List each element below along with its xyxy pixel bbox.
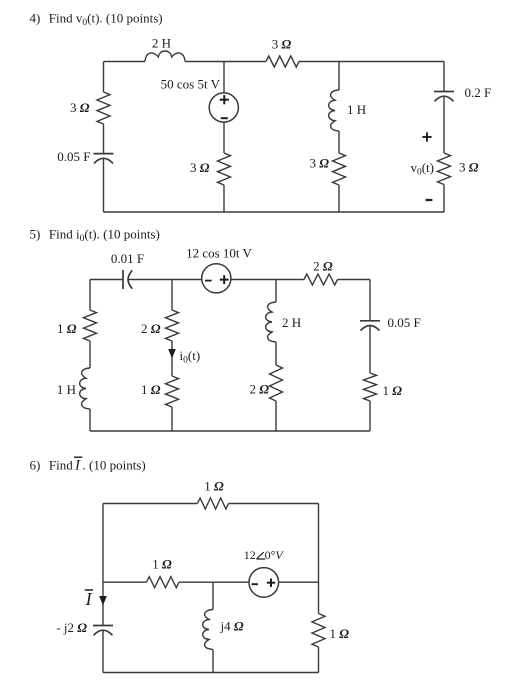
inductor 2H (top wire) [145,51,185,62]
wire P6 middle segment right [278,581,318,583]
resistor 3ohm source branch [218,153,231,185]
svg-text:1 H: 1 H [347,102,366,117]
svg-text:v0(t): v0(t) [410,160,434,178]
resistor 1ohm middle P6 [147,577,180,588]
inductor 1H [329,90,339,131]
wire P4 1H branch middle [338,131,340,153]
problem 6 title: Find I bar [30,457,146,473]
label 1 H [347,102,366,117]
label 1 H P5 [57,382,76,397]
svg-text:0.05 F: 0.05 F [388,315,421,330]
svg-text:12: 12 [244,548,256,562]
wire P5 right branch lower [369,401,371,431]
resistor 2ohm top [304,274,338,285]
label 3 ohm top [272,37,292,52]
resistor 2ohm branch2 [166,310,179,341]
svg-text:3 Ω: 3 Ω [70,100,90,115]
wire P4 source branch middle [223,122,225,153]
label 3 ohm left [70,100,90,115]
label -j2 ohm [56,620,87,635]
wire P5 branch2 middle [171,341,173,376]
problem 4 title: Find v0(t) [30,10,163,28]
wire P6 j4 branch upper [212,582,214,609]
source minus mark P6 [252,583,258,585]
svg-text:0.2 F: 0.2 F [465,85,492,100]
svg-text:2 H: 2 H [282,315,301,330]
voltage source 12angle0 [249,568,279,598]
label i0(t) [180,348,201,366]
svg-text:1 H: 1 H [57,382,76,397]
resistor 1ohm branch2 [166,376,179,407]
svg-text:0.05 F: 0.05 F [57,149,90,164]
wire P5 branch3 middle [275,342,277,365]
svg-text:j4 Ω: j4 Ω [220,619,244,634]
label 3 ohm right [459,159,479,174]
svg-text:3 Ω: 3 Ω [190,160,210,175]
wire P4 source branch upper [223,62,225,94]
inductor j4 [203,610,213,650]
svg-text:2 H: 2 H [152,36,171,51]
wire P5 top segment 2 [129,279,202,281]
svg-text:1 Ω: 1 Ω [141,382,161,397]
label 12 angle 0 V [244,548,285,562]
svg-text:1 Ω: 1 Ω [57,321,77,336]
svg-text:3 Ω: 3 Ω [459,159,479,174]
arrow i0 [168,349,176,359]
wire P6 top segment right [229,503,319,505]
source minus mark [221,117,228,119]
label 1 ohm branch2 [141,382,161,397]
label 1 ohm left [57,321,77,336]
label 2 ohm top [313,258,333,273]
wire P6 bottom [103,672,319,674]
capacitor 0.05F left [94,154,114,164]
wire P5 top segment 4 [338,279,371,281]
label 50 cos 5t V [161,77,221,92]
label 0.05 F [57,149,90,164]
wire P4 top segment middle [185,61,266,63]
voltage source 50cos5t [209,93,238,122]
wire P5 branch2 upper [171,280,173,311]
wire P4 top segment right [299,61,444,63]
label 0.01 F [111,251,144,266]
arrow I bar [99,596,107,606]
label 12 cos 10t V [186,246,252,261]
capacitor 0.01F [123,270,132,289]
svg-text:I: I [85,589,93,609]
minus mark v0 [426,199,433,201]
wire P5 bottom [90,430,370,432]
wire P4 left branch upper [103,62,105,93]
svg-text:2 Ω: 2 Ω [313,258,333,273]
plus mark v0 [422,132,431,141]
inductor 1H P5 [80,368,90,409]
wire P6 middle segment 2 [179,581,249,583]
svg-text:3 Ω: 3 Ω [310,155,330,170]
wire P5 branch3 upper [275,280,277,303]
wire P5 branch2 lower [171,407,173,431]
resistor 2ohm branch3 [270,365,283,401]
source plus mark P6 [267,579,275,587]
svg-text:2 Ω: 2 Ω [141,321,161,336]
wire P4 bottom [104,211,445,213]
label 0.05 F P5 [388,315,421,330]
wire P4 1H branch upper [338,62,340,91]
svg-text:2 Ω: 2 Ω [250,382,270,397]
voltage source 12cos10t [202,264,231,293]
capacitor 0.2F [434,92,454,102]
label 1 ohm right P6 [330,626,350,641]
resistor 3ohm top [266,56,299,67]
source plus mark P5 [220,275,229,284]
resistor 3ohm right [438,153,451,185]
svg-text:6)FindI. (10 points): 6)FindI. (10 points) [30,458,146,474]
wire P4 source branch lower [223,185,225,212]
label j4 ohm [220,619,244,634]
source plus mark [220,95,229,104]
wire P4 right branch middle [443,97,445,153]
svg-text:4)Find v0(t). (10 points): 4)Find v0(t). (10 points) [30,10,163,28]
wire P5 top segment 1 [90,279,123,281]
label 2 H P5 [282,315,301,330]
wire P5 left branch lower [89,409,91,431]
resistor 1ohm right [364,373,377,401]
wire P5 right branch middle [369,326,371,373]
resistor 3ohm 1H branch [333,153,346,185]
resistor 1ohm left [84,310,97,341]
resistor 3ohm left [97,92,110,124]
wire P6 left branch upper [102,504,104,626]
wire P6 right branch upper [318,504,320,614]
label 2 H [152,36,171,51]
svg-text:1 Ω: 1 Ω [204,479,224,494]
svg-text:0°V: 0°V [265,548,285,562]
resistor 1ohm top P6 [198,498,229,509]
label 1 ohm middle P6 [152,557,172,572]
wire P5 top segment 3 [231,279,304,281]
wire P4 top segment left [104,61,146,63]
wire P4 right branch upper [443,62,445,92]
label 0.2 F [465,85,492,100]
svg-text:12 cos 10t V: 12 cos 10t V [186,246,252,261]
wire P6 middle segment left [103,581,147,583]
label 1 ohm top P6 [204,479,224,494]
label v0(t) [410,160,434,178]
svg-text:1 Ω: 1 Ω [383,383,403,398]
wire P6 right branch lower [318,647,320,673]
svg-text:1 Ω: 1 Ω [330,626,350,641]
source minus mark P5 [205,280,212,282]
wire P6 top segment left [103,503,198,505]
svg-text:i0(t): i0(t) [180,348,201,366]
label 1 ohm right P5 [383,383,403,398]
svg-text:3 Ω: 3 Ω [272,37,292,52]
wire P5 right branch upper [369,280,371,321]
wire P5 branch3 lower [275,401,277,431]
label 3 ohm source branch [190,160,210,175]
wire P4 left branch middle [103,124,105,154]
svg-text:- j2 Ω: - j2 Ω [56,620,87,635]
capacitor 0.05F P5 [360,321,380,331]
label I bar [85,589,93,609]
svg-text:0.01 F: 0.01 F [111,251,144,266]
resistor 1ohm right P6 [312,614,325,648]
svg-text:1 Ω: 1 Ω [152,557,172,572]
problem 5 title: Find i0(t) [30,227,160,245]
wire P4 right branch lower [443,185,445,213]
label 3 ohm 1H branch [310,155,330,170]
inductor 2H P5 [266,302,276,342]
svg-text:5)Find i0(t). (10 points): 5)Find i0(t). (10 points) [30,227,160,245]
label 2 ohm branch2 [141,321,161,336]
wire P6 left branch lower [102,631,104,673]
wire P4 1H branch lower [338,185,340,212]
wire P5 left branch middle [89,341,91,368]
wire P4 left branch lower [103,159,105,212]
svg-text:50 cos 5t V: 50 cos 5t V [161,77,221,92]
wire P5 left branch upper [89,280,91,311]
capacitor -j2 [93,626,113,636]
wire P6 j4 branch lower [212,650,214,673]
label 2 ohm branch3 [250,382,270,397]
